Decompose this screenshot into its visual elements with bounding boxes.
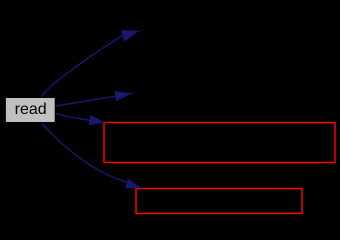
- arrowhead 3: [89, 116, 104, 125]
- edge 2: read to middle node (wire): [55, 93, 134, 106]
- node red box 1 (truncated node): [104, 123, 335, 163]
- svg-text:read: read: [15, 101, 47, 118]
- edge 3: read to red box 1 (wire): [56, 113, 90, 120]
- arrowhead 4: [126, 179, 141, 188]
- node red box 2 (truncated node): [136, 189, 302, 214]
- node read: [5, 98, 55, 123]
- edge 1: read to top node (wire): [42, 30, 143, 97]
- arrowhead 2: [115, 91, 131, 100]
- arrowhead 1: [122, 30, 139, 41]
- edge 4: read to red box 2 (wire): [42, 124, 127, 183]
